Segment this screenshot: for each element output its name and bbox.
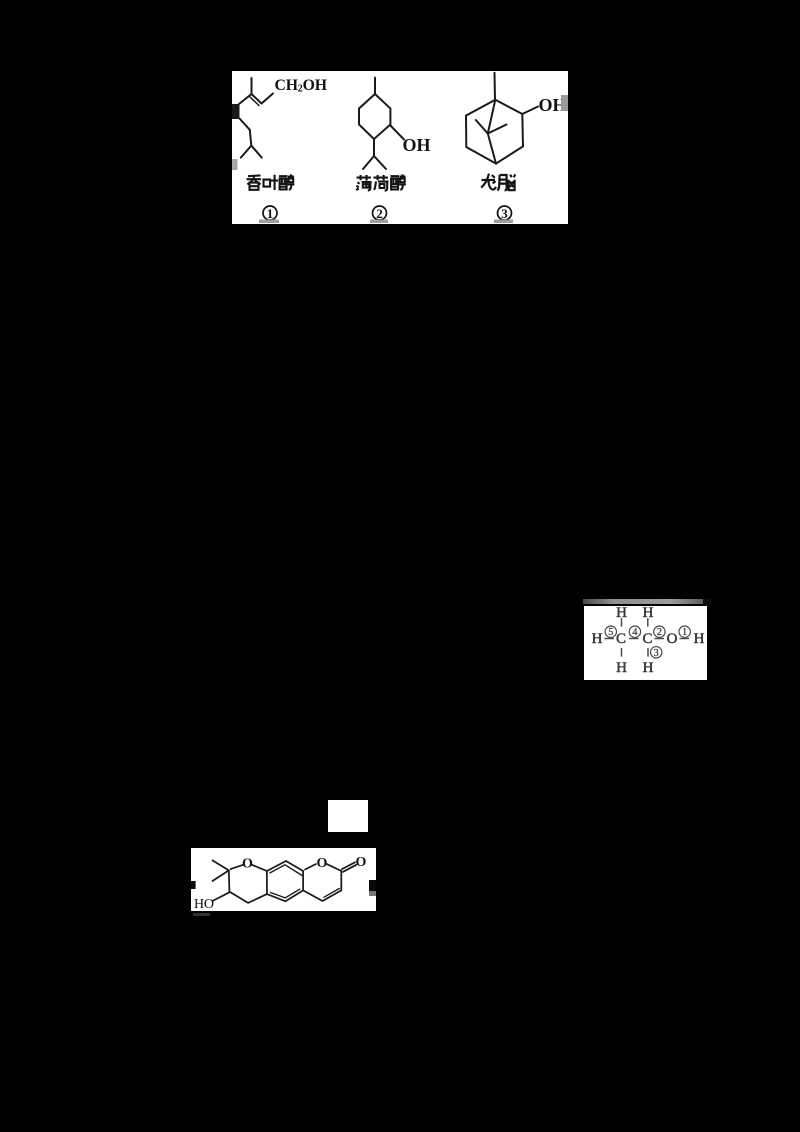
svg-text:H: H xyxy=(694,631,705,647)
svg-text:C: C xyxy=(616,631,626,647)
svg-text:O: O xyxy=(242,856,253,871)
svg-text:HO: HO xyxy=(194,897,214,911)
svg-text:O: O xyxy=(316,856,327,871)
svg-text:H: H xyxy=(592,631,603,647)
svg-text:4: 4 xyxy=(632,627,637,638)
svg-text:H: H xyxy=(616,660,627,676)
svg-text:O: O xyxy=(667,631,678,647)
svg-text:3: 3 xyxy=(501,206,508,221)
svg-text:5: 5 xyxy=(608,627,613,638)
svg-text:1: 1 xyxy=(682,627,687,638)
svg-text:O: O xyxy=(356,855,367,870)
svg-text:2: 2 xyxy=(376,206,383,221)
svg-text:1: 1 xyxy=(267,206,274,221)
svg-text:OH: OH xyxy=(403,135,431,155)
svg-text:CH2OH: CH2OH xyxy=(275,77,328,95)
svg-text:2: 2 xyxy=(657,627,662,638)
svg-text:C: C xyxy=(642,631,652,647)
svg-text:H: H xyxy=(643,660,654,676)
svg-text:3: 3 xyxy=(654,648,659,659)
